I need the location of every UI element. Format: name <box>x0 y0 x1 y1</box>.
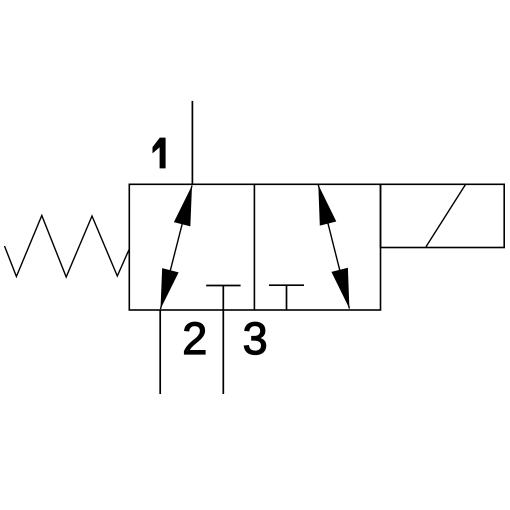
flow arrow (left position) shaft <box>161 186 193 310</box>
port 1 line <box>191 101 193 184</box>
flow arrow (left position) lower head <box>161 268 179 309</box>
flow arrow (right position) lower head <box>331 268 349 309</box>
port label 1 <box>153 138 165 168</box>
solenoid diagonal <box>426 185 466 247</box>
blocked port T (left position) <box>206 285 240 287</box>
flow arrow (right position) shaft <box>318 185 349 309</box>
spring <box>5 216 130 278</box>
flow arrow (left position) upper head <box>174 186 192 227</box>
position divider <box>253 184 255 310</box>
solenoid box <box>381 184 505 247</box>
valve body (two-position envelope) <box>129 184 380 310</box>
port 3 line <box>222 286 224 395</box>
svg-text:2: 2 <box>182 313 207 364</box>
blocked port T (right position) <box>269 285 304 310</box>
flow arrow (right position) upper head <box>318 185 336 226</box>
svg-text:3: 3 <box>243 313 268 364</box>
port 2 line <box>159 310 161 394</box>
